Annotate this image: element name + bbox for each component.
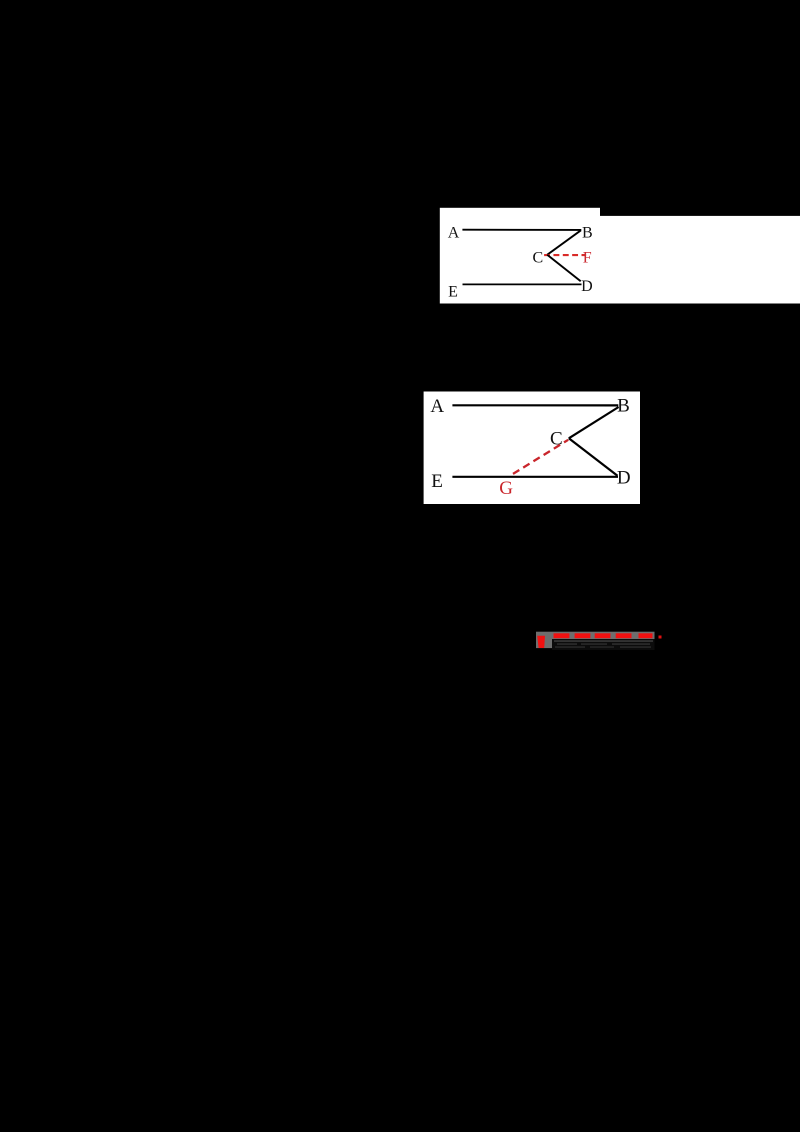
fig2 line AB (452, 404, 618, 406)
faint glyph gaps in text strip (554, 640, 653, 642)
dark text strip on band (552, 639, 655, 650)
red thick dash 3 (595, 633, 611, 638)
svg-text:F: F (583, 250, 592, 267)
white band right of figure 1 (600, 216, 800, 304)
svg-text:B: B (582, 225, 593, 242)
svg-text:A: A (448, 224, 460, 241)
figure 2 white panel (424, 392, 640, 505)
red thick dash 2 (575, 633, 591, 638)
fig1 line AB (462, 229, 581, 231)
fig1 red dashed CF (544, 254, 586, 256)
red thick dash 1 (554, 633, 570, 638)
svg-text:D: D (617, 468, 631, 489)
fig2 segment BC (569, 407, 619, 438)
fig2 red dashed GC (513, 440, 568, 474)
gray highlight band (536, 632, 655, 648)
svg-text:E: E (431, 471, 443, 492)
svg-text:G: G (499, 478, 513, 499)
red thick dash 5 (639, 633, 653, 638)
svg-text:A: A (430, 396, 444, 417)
fig1 segment CD (547, 255, 581, 281)
fig1 line ED (463, 283, 582, 285)
fig2 line ED (452, 476, 618, 478)
svg-text:E: E (448, 284, 458, 301)
red thick dash 4 (616, 633, 632, 638)
figure 1 white panel (440, 208, 600, 304)
red end dot (659, 636, 662, 639)
fig1 segment BC (547, 230, 581, 255)
svg-text:B: B (617, 396, 630, 417)
svg-text:D: D (581, 278, 593, 295)
fig2 segment CD (569, 438, 618, 476)
svg-text:C: C (532, 250, 543, 267)
red mark at band left (537, 636, 545, 648)
